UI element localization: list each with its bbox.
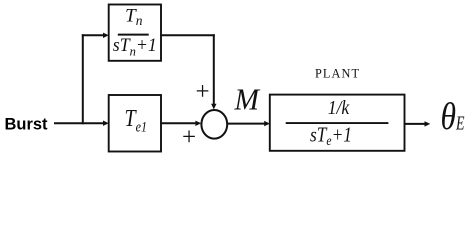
wire Te1 to summing junction — [161, 122, 196, 124]
fraction bar upper block — [118, 34, 149, 36]
svg-text:+: + — [196, 78, 210, 105]
svg-text:E: E — [455, 113, 464, 135]
wire Burst input horizontal — [54, 122, 104, 124]
summing junction circle — [201, 110, 227, 139]
wire summing junction to plant — [227, 123, 265, 125]
wire branch to upper block — [82, 34, 104, 36]
svg-text:sTe+1: sTe+1 — [310, 122, 352, 149]
svg-text:1/k: 1/k — [328, 97, 350, 119]
svg-text:PLANT: PLANT — [315, 67, 360, 81]
fraction bar plant — [286, 122, 389, 124]
svg-text:θ: θ — [441, 96, 457, 138]
svg-text:Burst: Burst — [5, 116, 49, 134]
svg-text:+: + — [182, 124, 196, 151]
block plant (1/k)/(sTe+1) — [270, 95, 405, 151]
block washout Tn/(sTn+1) — [109, 5, 161, 61]
svg-text:M: M — [234, 81, 262, 116]
wire plant output — [405, 123, 426, 125]
wire upper block to summing junction — [161, 34, 215, 36]
wire branch vertical up from junction — [82, 34, 84, 124]
block Te1 — [109, 95, 161, 152]
